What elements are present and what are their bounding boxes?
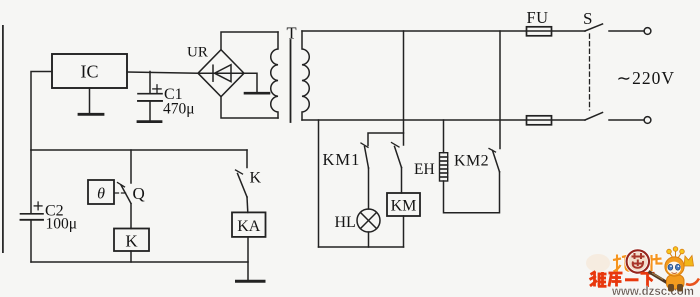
logo magnifier [627, 250, 649, 272]
fuse FU top [527, 27, 552, 36]
wire C2 to bottom rail [30, 220, 32, 262]
contact K [246, 150, 248, 168]
bridge UR inner diode [198, 72, 244, 74]
coil K box [114, 229, 149, 252]
ground below IC [89, 88, 91, 114]
wire bridge top vertex to transformer primary [221, 32, 278, 50]
coil KA box [232, 212, 266, 237]
wire lower-left top rail [31, 149, 247, 151]
logo text weikuyixia [590, 272, 655, 288]
mascot [649, 247, 700, 292]
C2 plus sign [34, 205, 42, 207]
svg-text:IC: IC [81, 62, 99, 82]
wire IC left lead [31, 72, 52, 151]
ground at bridge right [245, 92, 269, 95]
svg-text:FU: FU [527, 8, 549, 27]
svg-text:100μ: 100μ [46, 216, 78, 233]
wire IC right to bridge [127, 72, 198, 73]
dashed link theta to Q [115, 192, 127, 194]
wire KA to ground [247, 237, 249, 280]
C1 plus sign [153, 88, 161, 90]
wire left vertical to C2 [30, 150, 32, 213]
svg-text:KM2: KM2 [454, 153, 489, 170]
ground below C1 [138, 120, 161, 123]
wire vertical KM branch feed [403, 31, 405, 145]
wire bottom rail [302, 119, 585, 121]
wire bridge bottom vertex to transformer primary [221, 97, 278, 118]
IC regulator box [52, 54, 127, 88]
switch S link dashed [589, 34, 591, 110]
svg-text:KM1: KM1 [323, 150, 361, 169]
capacitor C2 [21, 213, 44, 215]
svg-text:θ: θ [97, 186, 105, 203]
transformer T primary winding [271, 32, 278, 118]
wire left branch vertical [318, 120, 320, 247]
contact KM2 [489, 149, 496, 153]
svg-text:HL: HL [335, 214, 356, 231]
logo text zhao [613, 255, 630, 272]
wire bridge right vertex to ground [244, 73, 257, 92]
transformer T core [290, 40, 292, 122]
svg-text:UR: UR [187, 45, 208, 61]
svg-text:T: T [287, 24, 297, 43]
switch S bottom pole [585, 113, 603, 121]
fuse FU bottom [527, 116, 552, 125]
svg-text:K: K [125, 231, 138, 250]
svg-text:K: K [250, 170, 262, 187]
svg-text:EH: EH [414, 161, 435, 178]
switch S top pole [585, 24, 603, 31]
wire KM2 feed vertical [499, 31, 501, 149]
wire branch bottom line [319, 246, 404, 248]
wire top rail [302, 30, 585, 32]
wire EH feed [443, 120, 445, 153]
wire branch to KM1 contact [368, 133, 404, 146]
sensor theta box [88, 180, 114, 204]
contact KM self-hold [392, 143, 400, 148]
logo text pian [652, 254, 663, 271]
svg-text:Q: Q [133, 184, 145, 203]
capacitor C1 [149, 72, 151, 94]
transformer T secondary winding [302, 31, 309, 120]
ground below KA [237, 280, 265, 283]
svg-text:KA: KA [237, 218, 261, 235]
svg-text:S: S [583, 9, 592, 28]
heater EH element [440, 153, 448, 181]
wire EH to KM2 contact [444, 172, 500, 213]
contact Q [130, 150, 132, 183]
coil KM box [387, 193, 420, 216]
svg-text:470μ: 470μ [163, 101, 195, 118]
logo glow [586, 254, 610, 272]
svg-text:KM: KM [391, 198, 417, 215]
bridge rectifier UR diamond [198, 50, 244, 97]
svg-text:∼220V: ∼220V [617, 68, 676, 88]
watermark logo dzsc [586, 247, 699, 297]
wire lower-left bottom rail [31, 261, 248, 263]
contact KM1 [361, 143, 368, 147]
lamp HL [357, 209, 380, 232]
